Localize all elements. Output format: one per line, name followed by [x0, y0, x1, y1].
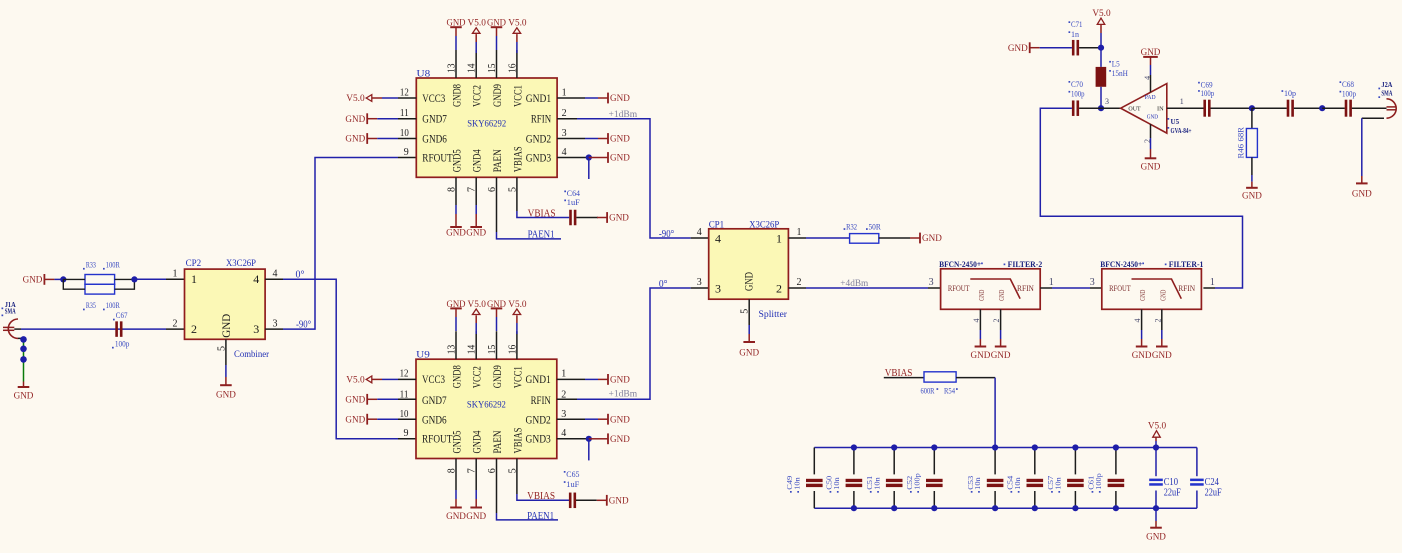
- capacitor C70 (100p): [1069, 80, 1085, 116]
- svg-text:2: 2: [1153, 319, 1162, 323]
- power V5.0 (U9 pin 16): [513, 309, 521, 315]
- junction bottom rail C52: [931, 505, 937, 511]
- capacitor C68 (100p): [1340, 80, 1357, 117]
- capacitor C49 (10n): [785, 448, 823, 509]
- svg-text:1: 1: [1180, 97, 1184, 106]
- power V5.0 (U9 pin 14): [472, 309, 480, 315]
- power V5.0 (U8 pin 14): [472, 28, 480, 34]
- power flag GND (U8 pin 4): [589, 157, 598, 159]
- power flag GND (U9 pin 10): [367, 418, 377, 420]
- junction bottom rail C57: [1072, 505, 1078, 511]
- svg-text:V5.0: V5.0: [468, 19, 487, 29]
- svg-text:V5.0: V5.0: [346, 376, 365, 386]
- wire cap bank top rail: [814, 447, 1197, 449]
- svg-text:GND: GND: [447, 300, 466, 310]
- junction bottom rail C53: [992, 505, 998, 511]
- svg-text:BFCN-2450+: BFCN-2450+: [939, 260, 981, 269]
- svg-text:2: 2: [562, 108, 567, 119]
- svg-text:22uF: 22uF: [1164, 487, 1181, 498]
- svg-text:600R: 600R: [921, 387, 936, 396]
- wire J2A shield to ground: [1362, 117, 1384, 119]
- svg-text:100p: 100p: [912, 473, 921, 490]
- svg-text:VCC1: VCC1: [510, 366, 524, 388]
- svg-text:GND: GND: [610, 154, 630, 164]
- wire CP1 pin 5 to ground: [748, 299, 750, 325]
- capacitor C53 (10n): [966, 448, 1004, 509]
- svg-text:1: 1: [173, 269, 178, 280]
- wire R46 to ground: [1251, 157, 1253, 175]
- svg-text:100p: 100p: [115, 339, 129, 348]
- capacitor C65 (1uF): [564, 470, 580, 508]
- wire C64 to ground flag: [576, 217, 598, 219]
- wire FILTER-2 pin 4 to ground: [979, 309, 981, 330]
- svg-text:100p: 100p: [1071, 90, 1085, 99]
- svg-text:V5.0: V5.0: [468, 300, 487, 310]
- wire U5 pin 4 to ground: [1150, 75, 1152, 92]
- svg-text:GND5: GND5: [450, 431, 464, 454]
- svg-text:GND9: GND9: [490, 84, 504, 107]
- power V5.0 (U9 pin 12): [366, 376, 372, 383]
- wire stub below U9 pin 4: [588, 439, 590, 461]
- svg-text:GND3: GND3: [526, 432, 551, 446]
- svg-text:U9: U9: [416, 351, 430, 361]
- svg-text:Splitter: Splitter: [759, 310, 788, 320]
- junction before C68: [1319, 105, 1325, 111]
- svg-text:GND: GND: [1008, 44, 1028, 54]
- svg-text:GND6: GND6: [422, 413, 447, 427]
- wire C68 to J2A: [1352, 107, 1387, 109]
- wire U9 pin 4: [557, 438, 589, 440]
- junction right of R33: [131, 276, 137, 282]
- capacitor C71 (1n): [1069, 20, 1083, 55]
- svg-text:RFIN: RFIN: [1017, 284, 1034, 293]
- wire U5 pin 2 to ground: [1150, 124, 1152, 138]
- junction U8 pin 4: [586, 154, 592, 160]
- capacitor C10 (22uF): [1149, 448, 1181, 509]
- wire FILTER-1 pin 4 to ground: [1141, 309, 1143, 330]
- ground U9 pin 8: [455, 459, 457, 491]
- svg-text:V5.0: V5.0: [346, 94, 365, 104]
- svg-text:GND: GND: [609, 214, 629, 224]
- svg-text:SMA: SMA: [5, 308, 16, 316]
- connector J2A (SMA): [1378, 81, 1396, 118]
- svg-text:GND: GND: [216, 391, 236, 401]
- svg-text:1: 1: [561, 369, 566, 380]
- ground J2A: [1356, 182, 1368, 184]
- svg-text:R33: R33: [86, 260, 96, 269]
- power flag GND (U8 pin 10): [367, 138, 377, 140]
- wire node to R46: [1251, 108, 1253, 128]
- junction J1A shield 1: [20, 336, 27, 343]
- IC U8 (SKY66292): [400, 50, 567, 192]
- ground CP2: [220, 384, 232, 386]
- wire C69 to node: [1211, 107, 1252, 109]
- wire L5 to OUT node: [1100, 87, 1102, 108]
- junction after C69: [1249, 105, 1255, 111]
- svg-text:X3C26P: X3C26P: [749, 221, 779, 231]
- power V5.0 (U8 pin 16): [513, 28, 521, 34]
- power flag GND (U9 pin 1): [557, 378, 585, 380]
- wire U9 RFIN to CP1 pin 3: [557, 398, 577, 400]
- svg-text:C71: C71: [1071, 20, 1083, 29]
- power flag GND (C65): [597, 499, 607, 501]
- ground FILTER-1 pin 4: [1136, 346, 1148, 348]
- filter FILTER-1 (BFCN-2450+): [1090, 260, 1215, 323]
- svg-text:V5.0: V5.0: [508, 300, 527, 310]
- power flag GND (C64): [597, 217, 607, 219]
- svg-text:GND: GND: [1242, 191, 1262, 201]
- capacitor C64 (1uF): [564, 189, 580, 225]
- svg-text:2: 2: [173, 318, 178, 329]
- svg-text:CP2: CP2: [186, 259, 202, 269]
- wire U5 IN to C69: [1167, 107, 1204, 109]
- wire R33 to CP2 pin 1: [134, 278, 166, 280]
- svg-text:GND: GND: [1146, 533, 1166, 543]
- junction J1A shield 3: [20, 356, 27, 363]
- power GND (U8 pin 15): [491, 26, 503, 28]
- capacitor C57 (10n): [1046, 448, 1084, 509]
- svg-text:4: 4: [1133, 319, 1142, 323]
- svg-text:GND: GND: [487, 300, 506, 310]
- svg-text:GND: GND: [998, 290, 1006, 301]
- svg-text:3: 3: [253, 322, 259, 336]
- ground U5 pin 4: [1143, 56, 1158, 58]
- svg-text:FILTER-1: FILTER-1: [1169, 260, 1204, 269]
- svg-text:RFIN: RFIN: [531, 112, 551, 126]
- svg-text:VCC2: VCC2: [470, 85, 484, 107]
- svg-text:GND1: GND1: [526, 91, 551, 105]
- wire V5.0 to top rail: [1155, 437, 1157, 441]
- power GND (U9 pin 13): [450, 307, 462, 309]
- wire CP1 pin 2 to FILTER-2: [788, 287, 806, 289]
- power flag GND (U9 pin 4): [589, 438, 598, 440]
- svg-text:100p: 100p: [1094, 473, 1103, 490]
- svg-text:GND: GND: [345, 135, 365, 145]
- wire C70 to amplifier OUT: [1079, 107, 1121, 109]
- svg-text:+1dBm: +1dBm: [609, 390, 638, 400]
- wire CP2 pin 5 to ground: [225, 339, 227, 365]
- svg-text:RFOUT: RFOUT: [422, 432, 453, 446]
- wire CP1 pin 1 to R32: [788, 237, 806, 239]
- svg-text:GND9: GND9: [490, 365, 504, 388]
- svg-text:R35: R35: [86, 301, 96, 310]
- svg-text:GND: GND: [978, 290, 986, 301]
- capacitor C24 (22uF): [1190, 448, 1222, 509]
- svg-text:C70: C70: [1071, 80, 1083, 89]
- svg-text:X3C26P: X3C26P: [226, 259, 256, 269]
- svg-text:GND: GND: [446, 228, 466, 238]
- ground U5 pin 2: [1145, 157, 1157, 159]
- svg-text:2: 2: [191, 322, 197, 336]
- wire cap bank bottom rail: [814, 507, 1197, 509]
- power GND (U9 pin 15): [491, 307, 503, 309]
- wire FILTER-1 pin 2 to ground: [1161, 309, 1163, 330]
- svg-text:PAEN: PAEN: [490, 430, 504, 453]
- svg-text:GND: GND: [466, 228, 486, 238]
- svg-text:15nH: 15nH: [1112, 69, 1128, 78]
- svg-text:1: 1: [191, 272, 197, 286]
- svg-text:V5.0: V5.0: [508, 19, 527, 29]
- wire C71 to V5.0 node: [1079, 47, 1101, 49]
- ground cap bank: [1150, 527, 1162, 529]
- svg-text:GND: GND: [971, 351, 991, 361]
- svg-text:GND7: GND7: [422, 112, 447, 126]
- svg-text:GND: GND: [23, 276, 43, 286]
- junction top rail C57: [1072, 444, 1078, 450]
- svg-text:GND1: GND1: [526, 372, 551, 386]
- svg-text:VCC3: VCC3: [422, 91, 445, 105]
- svg-text:GND: GND: [610, 435, 630, 445]
- wire R32 to ground flag: [879, 237, 910, 239]
- power flag GND (U9 pin 11): [367, 398, 377, 400]
- svg-text:GND: GND: [1159, 290, 1167, 301]
- junction bottom rail C50: [851, 505, 857, 511]
- svg-text:GVA-84+: GVA-84+: [1171, 126, 1192, 135]
- ground FILTER-2 pin 2: [995, 346, 1007, 348]
- junction bottom rail C54: [1032, 505, 1038, 511]
- svg-text:GND: GND: [345, 396, 365, 406]
- junction bottom rail C51: [891, 505, 897, 511]
- wire CP2 pin 3 to U8 RFOUT: [265, 328, 283, 330]
- svg-text:GND8: GND8: [450, 84, 464, 107]
- svg-text:FILTER-2: FILTER-2: [1008, 260, 1043, 269]
- wire GND flag to R33/R35: [54, 278, 63, 280]
- capacitor C54 (10n): [1006, 448, 1044, 509]
- svg-text:10n: 10n: [832, 477, 841, 490]
- svg-text:10: 10: [400, 128, 409, 139]
- svg-text:1: 1: [562, 87, 567, 98]
- svg-text:C65: C65: [566, 470, 579, 479]
- svg-text:BFCN-2450+: BFCN-2450+: [1100, 260, 1142, 269]
- svg-text:GND: GND: [609, 497, 629, 507]
- svg-text:4: 4: [561, 428, 566, 439]
- svg-text:GND: GND: [610, 94, 630, 104]
- svg-text:C67: C67: [116, 311, 128, 320]
- resistor R35 (100R): [63, 279, 134, 310]
- junction V5.0 / C71 / L5 node: [1098, 45, 1104, 51]
- svg-text:CP1: CP1: [709, 221, 725, 231]
- svg-text:GND: GND: [739, 349, 759, 359]
- svg-text:GND2: GND2: [526, 132, 551, 146]
- wire FILTER-2 pin 2 to ground: [1000, 309, 1002, 330]
- svg-text:100R: 100R: [106, 260, 121, 269]
- svg-text:4: 4: [273, 269, 278, 280]
- svg-text:9: 9: [404, 147, 409, 158]
- svg-text:4: 4: [253, 272, 259, 286]
- svg-text:GND: GND: [610, 135, 630, 145]
- wire CP2 pin 4 to U9 RFOUT: [265, 278, 283, 280]
- svg-text:IN: IN: [1157, 106, 1164, 113]
- svg-text:12: 12: [400, 87, 409, 98]
- svg-text:GND4: GND4: [470, 431, 484, 454]
- combiner CP2 (X3C26P): [173, 259, 278, 360]
- svg-text:J2A: J2A: [1381, 81, 1392, 89]
- inductor L5 (15nH): [1096, 60, 1128, 87]
- svg-text:C24: C24: [1205, 477, 1219, 488]
- svg-text:PAD: PAD: [1145, 94, 1156, 101]
- svg-text:U5: U5: [1171, 117, 1180, 126]
- svg-text:VCC2: VCC2: [470, 366, 484, 388]
- wire R54 to cap bank top rail: [956, 377, 995, 379]
- capacitor C52 (100p): [905, 448, 943, 509]
- wire U9 PAEN pin 6: [496, 459, 498, 514]
- power flag GND (U8 pin 11): [367, 118, 377, 120]
- power flag GND (U9 pin 3): [557, 418, 585, 420]
- svg-text:OUT: OUT: [1128, 106, 1140, 113]
- svg-text:GND: GND: [1147, 114, 1159, 121]
- svg-text:C64: C64: [567, 189, 580, 198]
- ground R46: [1246, 187, 1258, 189]
- svg-text:GND: GND: [1152, 351, 1172, 361]
- wire U8 PAEN pin 6: [496, 177, 498, 232]
- svg-text:L5: L5: [1112, 60, 1120, 69]
- power flag GND (C71): [1030, 47, 1040, 49]
- svg-text:GND: GND: [219, 313, 233, 337]
- svg-text:68R: 68R: [1237, 126, 1246, 141]
- splitter CP1 (X3C26P): [697, 221, 802, 321]
- resistor R33 (100R): [63, 260, 120, 284]
- svg-text:1: 1: [1210, 277, 1215, 288]
- filter FILTER-2 (BFCN-2450+): [929, 260, 1054, 323]
- ground J1A: [18, 386, 30, 388]
- svg-text:GND8: GND8: [450, 365, 464, 388]
- capacitor C51 (10n): [865, 448, 903, 509]
- wire junction to C68: [1322, 107, 1345, 109]
- ground U8 pin 7: [475, 177, 477, 205]
- svg-text:100p: 100p: [1201, 89, 1215, 98]
- junction U9 pin 4: [586, 436, 592, 442]
- capacitor C61 (100p): [1087, 448, 1125, 509]
- junction J1A shield 2: [20, 346, 27, 353]
- svg-text:4: 4: [697, 227, 702, 238]
- resistor R46 (68R): [1237, 126, 1258, 158]
- svg-text:2: 2: [797, 277, 802, 288]
- ground CP1: [743, 341, 755, 343]
- svg-text:3: 3: [1105, 97, 1109, 106]
- svg-text:V5.0: V5.0: [1148, 422, 1167, 432]
- junction top rail C54: [1032, 444, 1038, 450]
- svg-text:GND: GND: [345, 415, 365, 425]
- junction left of R33: [60, 276, 66, 282]
- wire C65 to ground flag: [576, 499, 597, 501]
- svg-text:GND: GND: [991, 351, 1011, 361]
- svg-text:GND4: GND4: [470, 149, 484, 172]
- svg-text:10n: 10n: [1013, 477, 1022, 490]
- svg-text:SKY66292: SKY66292: [467, 119, 506, 129]
- svg-text:10n: 10n: [973, 477, 982, 490]
- svg-text:1: 1: [776, 232, 782, 246]
- svg-text:3: 3: [273, 318, 278, 329]
- resistor R54 (600R): [921, 372, 958, 396]
- junction top rail C10: [1153, 444, 1159, 450]
- power flag GND (R32): [910, 237, 920, 239]
- svg-text:1uF: 1uF: [566, 480, 580, 489]
- svg-text:3: 3: [1090, 277, 1095, 288]
- svg-text:GND: GND: [610, 415, 630, 425]
- junction bottom rail C61: [1113, 505, 1119, 511]
- ground FILTER-1 pin 2: [1156, 346, 1168, 348]
- amplifier U5 (GVA-84+): [1105, 76, 1192, 143]
- capacitor C67 (100p): [112, 311, 129, 348]
- svg-text:GND: GND: [610, 376, 630, 386]
- svg-text:3: 3: [562, 128, 567, 139]
- wire bottom rail to ground: [1155, 508, 1157, 521]
- svg-text:GND: GND: [742, 272, 756, 291]
- svg-text:VBIAS: VBIAS: [510, 146, 524, 172]
- svg-text:GND: GND: [487, 19, 506, 29]
- svg-text:PAEN: PAEN: [490, 149, 504, 172]
- svg-text:11: 11: [400, 108, 409, 119]
- wire U8 pin 4: [557, 157, 589, 159]
- wire node to 10p cap: [1252, 107, 1287, 109]
- junction top rail C51: [891, 444, 897, 450]
- svg-text:4: 4: [562, 147, 567, 158]
- junction OUT node: [1098, 105, 1104, 111]
- svg-text:C68: C68: [1342, 80, 1354, 89]
- svg-text:GND3: GND3: [526, 151, 551, 165]
- wire J1A shield: [18, 338, 24, 339]
- svg-text:1: 1: [797, 227, 802, 238]
- svg-text:GND5: GND5: [450, 149, 464, 172]
- svg-text:-90°: -90°: [659, 229, 674, 240]
- svg-text:1n: 1n: [1071, 30, 1079, 39]
- svg-text:10n: 10n: [872, 477, 881, 490]
- svg-text:3: 3: [697, 277, 702, 288]
- wire J1A center pin to C67: [14, 328, 21, 330]
- power V5.0 (amplifier): [1097, 18, 1105, 24]
- svg-text:4: 4: [715, 232, 721, 246]
- svg-text:2: 2: [776, 282, 782, 296]
- svg-text:RFOUT: RFOUT: [1109, 284, 1131, 293]
- svg-text:1uF: 1uF: [567, 198, 581, 207]
- svg-text:GND: GND: [1352, 190, 1372, 200]
- svg-text:C10: C10: [1164, 477, 1178, 488]
- capacitor C50 (10n): [825, 448, 863, 509]
- svg-text:GND: GND: [447, 19, 466, 29]
- svg-text:VCC3: VCC3: [422, 372, 445, 386]
- svg-text:R46: R46: [1237, 144, 1246, 159]
- svg-text:0°: 0°: [659, 279, 668, 290]
- svg-text:Combiner: Combiner: [234, 350, 270, 360]
- svg-text:100R: 100R: [106, 301, 121, 310]
- svg-text:50R: 50R: [869, 222, 882, 231]
- svg-text:GND: GND: [1132, 351, 1152, 361]
- svg-text:R54: R54: [944, 387, 955, 396]
- svg-text:U8: U8: [417, 69, 431, 79]
- svg-text:GND: GND: [1141, 48, 1161, 58]
- svg-text:V5.0: V5.0: [1092, 9, 1111, 19]
- svg-text:SKY66292: SKY66292: [467, 401, 506, 411]
- svg-text:GND: GND: [922, 234, 942, 244]
- power flag GND (U8 pin 3): [557, 138, 585, 140]
- svg-text:R32: R32: [846, 222, 857, 231]
- svg-text:3: 3: [929, 277, 934, 288]
- junction top rail C50: [851, 444, 857, 450]
- wire FILTER-1 pin 1 to amplifier C70: [1203, 287, 1215, 289]
- svg-text:12: 12: [400, 369, 409, 380]
- svg-text:GND7: GND7: [422, 393, 447, 407]
- capacitor C69 (100p): [1198, 81, 1214, 117]
- ground U8 pin 8: [455, 177, 457, 205]
- svg-text:GND: GND: [1141, 163, 1161, 173]
- wire U8 RFIN to CP1 pin 4: [557, 118, 577, 120]
- svg-text:4: 4: [972, 319, 981, 323]
- power GND (U8 pin 13): [450, 26, 462, 28]
- svg-text:GND: GND: [345, 115, 365, 125]
- svg-text:10n: 10n: [792, 477, 801, 490]
- svg-text:GND6: GND6: [422, 132, 447, 146]
- junction top rail C53: [992, 444, 998, 450]
